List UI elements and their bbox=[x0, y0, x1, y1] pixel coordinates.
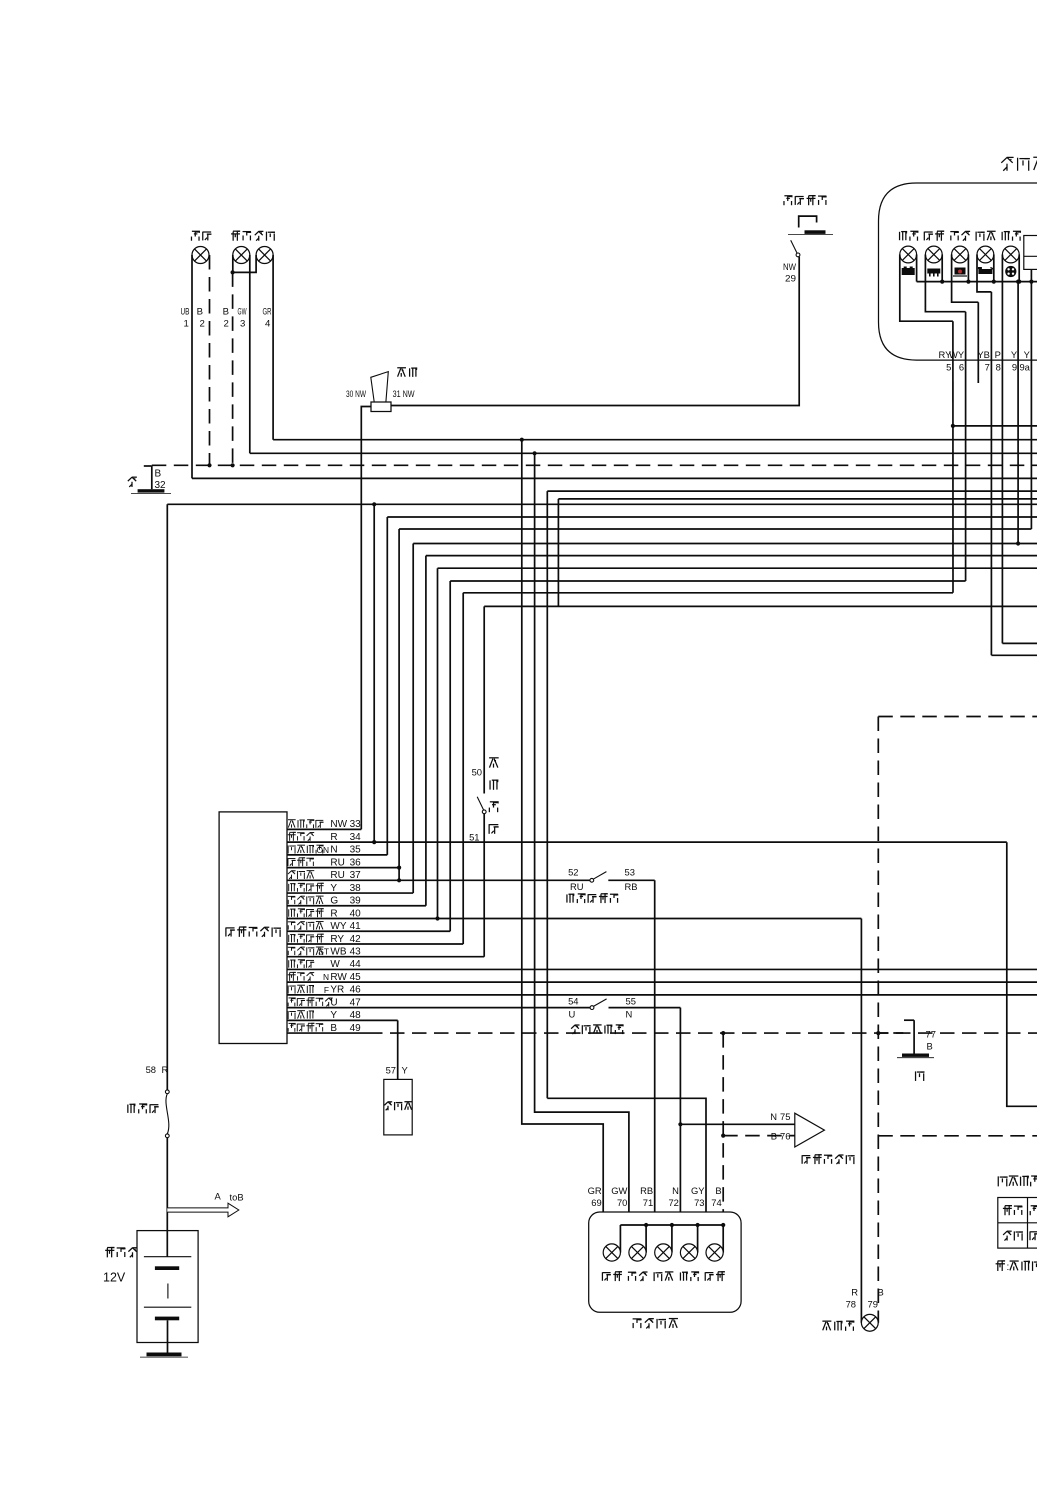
svg-text:3: 3 bbox=[240, 319, 245, 330]
svg-text:B: B bbox=[223, 307, 229, 318]
svg-text:70: 70 bbox=[617, 1197, 627, 1208]
svg-text:44: 44 bbox=[350, 959, 362, 970]
svg-text:GW: GW bbox=[238, 307, 248, 318]
svg-text:48: 48 bbox=[350, 1010, 362, 1021]
svg-text:B: B bbox=[878, 1287, 884, 1298]
svg-text:N: N bbox=[672, 1185, 679, 1196]
svg-text:2: 2 bbox=[200, 319, 205, 330]
svg-text:Y: Y bbox=[402, 1065, 409, 1076]
svg-text:30 NW: 30 NW bbox=[346, 389, 366, 399]
svg-text:WY: WY bbox=[330, 921, 346, 932]
svg-text:RY: RY bbox=[330, 934, 344, 945]
svg-text:40: 40 bbox=[350, 908, 362, 919]
svg-text:33: 33 bbox=[350, 819, 362, 830]
svg-text:RU: RU bbox=[330, 870, 344, 881]
svg-text:29: 29 bbox=[785, 274, 796, 284]
svg-text:5: 5 bbox=[946, 361, 951, 372]
svg-text:toB: toB bbox=[230, 1192, 244, 1203]
svg-text:45: 45 bbox=[350, 972, 362, 983]
svg-text:G: G bbox=[330, 896, 338, 907]
svg-text:1: 1 bbox=[184, 319, 189, 330]
svg-text:57: 57 bbox=[386, 1065, 396, 1076]
svg-text:54: 54 bbox=[568, 996, 578, 1007]
svg-text:B: B bbox=[330, 1023, 337, 1034]
svg-text:4: 4 bbox=[265, 319, 271, 330]
svg-text:N: N bbox=[330, 845, 337, 856]
svg-text:RU: RU bbox=[570, 881, 584, 892]
svg-text:WY: WY bbox=[949, 349, 965, 360]
svg-text:55: 55 bbox=[626, 996, 636, 1007]
svg-text:GW: GW bbox=[611, 1185, 627, 1196]
svg-text:37: 37 bbox=[350, 870, 362, 881]
svg-text:9a: 9a bbox=[1019, 361, 1030, 372]
svg-text:YR: YR bbox=[330, 985, 344, 996]
svg-text:YB: YB bbox=[977, 349, 990, 360]
svg-text:B: B bbox=[155, 469, 162, 480]
svg-text:R: R bbox=[162, 1064, 169, 1075]
svg-text:47: 47 bbox=[350, 997, 362, 1008]
svg-text:78: 78 bbox=[846, 1299, 856, 1310]
svg-text:58: 58 bbox=[146, 1064, 156, 1075]
svg-text:69: 69 bbox=[591, 1197, 601, 1208]
svg-text:F: F bbox=[324, 985, 329, 995]
svg-text:46: 46 bbox=[350, 985, 362, 996]
svg-text:UB: UB bbox=[181, 307, 190, 318]
svg-text:43: 43 bbox=[350, 947, 362, 958]
svg-text:73: 73 bbox=[694, 1197, 704, 1208]
svg-text:75: 75 bbox=[780, 1111, 790, 1122]
svg-text:49: 49 bbox=[350, 1023, 362, 1034]
svg-text:79: 79 bbox=[868, 1299, 878, 1310]
svg-text:P: P bbox=[995, 349, 1001, 360]
svg-text:12V: 12V bbox=[103, 1271, 126, 1285]
svg-text:9: 9 bbox=[1012, 361, 1017, 372]
svg-text:N: N bbox=[323, 972, 329, 982]
svg-text:ON: ON bbox=[316, 845, 329, 855]
svg-text:RW: RW bbox=[330, 972, 347, 983]
svg-text:35: 35 bbox=[350, 845, 362, 856]
svg-text:N: N bbox=[626, 1009, 633, 1020]
svg-text:R: R bbox=[330, 832, 337, 843]
svg-text:31 NW: 31 NW bbox=[393, 389, 415, 399]
svg-text:GY: GY bbox=[691, 1185, 705, 1196]
svg-text:RB: RB bbox=[640, 1185, 653, 1196]
svg-text:7: 7 bbox=[985, 361, 990, 372]
svg-text:R: R bbox=[851, 1287, 858, 1298]
svg-text:74: 74 bbox=[711, 1197, 721, 1208]
svg-text:U: U bbox=[569, 1009, 576, 1020]
svg-text:38: 38 bbox=[350, 883, 362, 894]
svg-text:41: 41 bbox=[350, 921, 362, 932]
svg-text:76: 76 bbox=[780, 1131, 790, 1142]
svg-text:51: 51 bbox=[469, 832, 479, 843]
svg-text:36: 36 bbox=[350, 857, 362, 868]
svg-text:GR: GR bbox=[263, 307, 272, 318]
svg-text:RB: RB bbox=[625, 881, 638, 892]
svg-text:NW: NW bbox=[783, 262, 796, 272]
svg-text:Y: Y bbox=[330, 883, 337, 894]
svg-text:B: B bbox=[771, 1131, 777, 1142]
svg-text:WB: WB bbox=[330, 947, 346, 958]
svg-text:Y: Y bbox=[1011, 349, 1018, 360]
svg-text:53: 53 bbox=[625, 866, 635, 877]
svg-text:77: 77 bbox=[926, 1029, 936, 1040]
svg-text:W: W bbox=[330, 959, 340, 970]
svg-text:50: 50 bbox=[472, 767, 482, 778]
svg-text:Y: Y bbox=[1024, 349, 1031, 360]
svg-text:8: 8 bbox=[996, 361, 1001, 372]
svg-text:6: 6 bbox=[959, 361, 964, 372]
svg-text:B: B bbox=[927, 1041, 933, 1052]
svg-text:B: B bbox=[715, 1185, 721, 1196]
svg-text:B: B bbox=[197, 307, 203, 318]
svg-text:2: 2 bbox=[224, 319, 229, 330]
svg-text:NW: NW bbox=[330, 819, 347, 830]
svg-text:RU: RU bbox=[330, 857, 344, 868]
svg-text:GR: GR bbox=[588, 1185, 602, 1196]
svg-text:71: 71 bbox=[643, 1197, 653, 1208]
svg-text:72: 72 bbox=[668, 1197, 678, 1208]
svg-text:N: N bbox=[770, 1111, 777, 1122]
svg-text:A: A bbox=[215, 1191, 222, 1202]
svg-text::: : bbox=[1007, 1262, 1010, 1273]
svg-text:U: U bbox=[330, 997, 337, 1008]
svg-text:32: 32 bbox=[155, 480, 167, 491]
svg-text:39: 39 bbox=[350, 896, 362, 907]
svg-text:Y: Y bbox=[330, 1010, 337, 1021]
svg-text:ST: ST bbox=[318, 947, 329, 957]
svg-text:52: 52 bbox=[568, 866, 578, 877]
svg-text:R: R bbox=[330, 908, 337, 919]
svg-text:34: 34 bbox=[350, 832, 362, 843]
svg-text:42: 42 bbox=[350, 934, 362, 945]
